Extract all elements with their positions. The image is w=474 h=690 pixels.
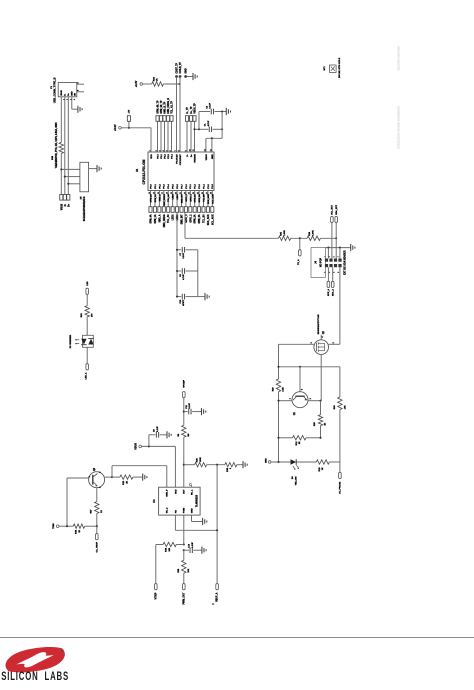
svg-text:4: 4: [321, 337, 324, 338]
svg-text:SPM_2A: SPM_2A: [194, 194, 197, 203]
svg-text:NO POP: NO POP: [320, 257, 323, 267]
svg-text:SDA_AUX: SDA_AUX: [207, 214, 210, 225]
svg-text:P1.5: P1.5: [208, 184, 210, 189]
svg-text:LED2: LED2: [173, 193, 175, 199]
svg-text:THERMISTOR, PTC, RX, 12V4, 0.5: THERMISTOR, PTC, RX, 12V4, 0.50A, 0805: [55, 122, 58, 169]
svg-text:SPM_4A: SPM_4A: [150, 194, 153, 203]
svg-text:P0.0: P0.0: [150, 184, 152, 189]
svg-text:VDD: VDD: [151, 154, 153, 159]
svg-text:8: 8: [178, 150, 180, 151]
svg-text:1M: 1M: [188, 433, 190, 436]
svg-text:10K: 10K: [344, 405, 346, 409]
svg-text:P2.2: P2.2: [164, 154, 166, 159]
svg-text:GND: GND: [212, 154, 214, 159]
svg-text:D-: D-: [187, 154, 189, 157]
svg-text:5: 5: [166, 150, 168, 151]
svg-text:4: 4: [162, 150, 165, 151]
svg-text:1K: 1K: [157, 78, 159, 81]
svg-text:OC_VBUF: OC_VBUF: [96, 541, 98, 552]
svg-text:0.1UF: 0.1UF: [189, 402, 191, 408]
svg-text:7: 7: [175, 150, 177, 151]
svg-text:SPM_2A: SPM_2A: [194, 214, 197, 223]
svg-text:GND: GND: [186, 68, 188, 73]
svg-text:SPM_4A: SPM_4A: [150, 214, 153, 223]
svg-text:TRIM: TRIM: [53, 523, 55, 529]
svg-text:P0.5: P0.5: [173, 184, 175, 189]
svg-text:SPM_1B_TP: SPM_1B_TP: [161, 100, 163, 114]
svg-text:LED2: LED2: [173, 214, 175, 221]
svg-text:9: 9: [185, 150, 187, 151]
svg-text:250 MIL MTG HOLE: 250 MIL MTG HOLE: [339, 57, 341, 78]
svg-text:5: 5: [78, 82, 80, 83]
svg-text:SDA_A: SDA_A: [332, 289, 335, 297]
svg-text:VREGIN: VREGIN: [194, 154, 196, 163]
svg-text:3: 3: [99, 472, 101, 473]
svg-text:C2CK/RST: C2CK/RST: [180, 154, 182, 166]
svg-text:+5V: +5V: [129, 109, 131, 113]
svg-text:0.1UF: 0.1UF: [157, 426, 159, 432]
svg-text:TL4050B25: TL4050B25: [196, 494, 199, 507]
svg-text:P0.1: P0.1: [155, 184, 157, 189]
svg-text:3: 3: [302, 389, 304, 390]
svg-text:1: 1: [64, 99, 66, 100]
svg-text:D-_TP: D-_TP: [187, 107, 189, 114]
svg-text:11: 11: [193, 149, 195, 151]
svg-text:P0.4: P0.4: [167, 184, 170, 189]
svg-text:D-: D-: [65, 204, 67, 207]
svg-text:P1.4: P1.4: [202, 184, 205, 189]
svg-text:SPM_4B_TP: SPM_4B_TP: [156, 100, 159, 114]
svg-text:SPM_1A: SPM_1A: [154, 194, 157, 203]
svg-text:YELLOW: YELLOW: [295, 476, 297, 485]
svg-text:SPM_3A: SPM_3A: [198, 194, 201, 203]
svg-text:P2.0: P2.0: [157, 154, 159, 159]
svg-text:3: 3: [329, 256, 331, 257]
svg-text:GPIO_0: GPIO_0: [186, 214, 188, 223]
svg-text:GND: GND: [191, 508, 193, 513]
svg-text:HND_DRDG: HND_DRDG: [164, 194, 166, 206]
svg-text:VBUS_TP: VBUS_TP: [194, 103, 196, 114]
svg-text:3: 3: [311, 342, 313, 343]
svg-text:PWM_OUT: PWM_OUT: [183, 592, 185, 604]
svg-text:2: 2: [333, 342, 335, 343]
svg-text:LED: LED: [87, 281, 89, 286]
svg-text:PWM: PWM: [184, 508, 186, 513]
svg-text:EXT I2C SDA HEADER: EXT I2C SDA HEADER: [343, 250, 346, 275]
svg-text:SCL_EXT: SCL_EXT: [332, 204, 334, 214]
svg-text:VTRIP: VTRIP: [155, 592, 157, 599]
svg-text:0.1UF: 0.1UF: [183, 252, 185, 258]
svg-text:TS_A: TS_A: [297, 259, 300, 265]
svg-text:2.2K: 2.2K: [283, 387, 285, 392]
svg-text:7: 7: [338, 256, 340, 257]
svg-text:SMB_INT: SMB_INT: [182, 214, 184, 225]
svg-text:SURGE/GP0030RAFG: SURGE/GP0030RAFG: [83, 196, 86, 221]
svg-text:USB_CONN_TYPE_B: USB_CONN_TYPE_B: [52, 77, 56, 103]
svg-text:VBUF_A: VBUF_A: [216, 592, 219, 602]
svg-text:HND_DRDG_B: HND_DRDG_B: [168, 98, 170, 114]
svg-text:TCL_A1_TP: TCL_A1_TP: [170, 100, 173, 113]
svg-text:SILICON LABS: SILICON LABS: [1, 670, 69, 683]
svg-text:HND_B_TP: HND_B_TP: [164, 101, 166, 113]
svg-text:VBUS: VBUS: [61, 90, 63, 96]
svg-text:5: 5: [333, 256, 335, 257]
svg-text:FB: FB: [175, 510, 177, 513]
svg-text:GPIO_0: GPIO_0: [186, 193, 188, 201]
svg-text:D+_TP: D+_TP: [191, 106, 193, 114]
svg-text:100K: 100K: [200, 457, 202, 462]
svg-text:P1.6: P1.6: [212, 184, 214, 189]
svg-text:D2 GRN/RED: D2 GRN/RED: [70, 334, 72, 348]
svg-text:6: 6: [333, 272, 335, 273]
svg-text:HND_A: HND_A: [158, 194, 161, 202]
svg-text:SMB_INT: SMB_INT: [182, 193, 184, 203]
svg-text:SCL_AUX: SCL_AUX: [211, 194, 214, 204]
svg-text:10: 10: [189, 149, 191, 151]
svg-text:LED_A: LED_A: [85, 372, 88, 379]
svg-text:SCK_A: SCK_A: [327, 289, 330, 297]
svg-text:GND: GND: [265, 458, 267, 463]
svg-text:P1.1: P1.1: [190, 184, 192, 189]
svg-text:P2.4: P2.4: [170, 154, 173, 159]
svg-text:HND_DRDG: HND_DRDG: [164, 214, 166, 227]
svg-text:10K: 10K: [188, 568, 190, 572]
svg-text:P2.3: P2.3: [168, 154, 170, 159]
svg-text:VBUS: VBUS: [206, 154, 208, 161]
svg-text:P0.3: P0.3: [164, 184, 166, 189]
svg-text:6: 6: [78, 90, 80, 91]
svg-text:SDA_EXT: SDA_EXT: [335, 204, 338, 215]
svg-text:NC_2: NC_2: [167, 507, 169, 513]
svg-text:2: 2: [67, 99, 69, 100]
svg-text:P2.1: P2.1: [161, 154, 163, 159]
svg-text:HND_A: HND_A: [158, 214, 161, 222]
svg-text:2: 2: [99, 487, 101, 488]
svg-text:GPIO_1: GPIO_1: [190, 214, 192, 223]
svg-text:P0.2: P0.2: [159, 184, 161, 189]
svg-text:GND_F: GND_F: [167, 489, 169, 497]
svg-text:1: 1: [289, 398, 291, 399]
svg-text:SDA_AUX: SDA_AUX: [207, 194, 210, 204]
svg-text:OUT: OUT: [184, 489, 186, 494]
svg-text:3: 3: [159, 150, 161, 151]
svg-text:CP2112-F01-GM: CP2112-F01-GM: [142, 159, 146, 184]
svg-text:1.00K: 1.00K: [284, 230, 286, 236]
svg-text:CDBT_TP: CDBT_TP: [176, 62, 178, 73]
svg-text:SPM_3A: SPM_3A: [198, 214, 201, 223]
svg-text:+3.3V: +3.3V: [135, 80, 138, 87]
svg-text:U1: U1: [135, 168, 139, 172]
svg-text:LED1: LED1: [177, 193, 179, 199]
svg-text:1: 1: [324, 256, 326, 257]
svg-text:2: 2: [310, 398, 312, 399]
svg-text:SILICON LABS REV: SILICON LABS REV: [397, 46, 401, 71]
svg-text:OC_PROG2: OC_PROG2: [339, 481, 341, 494]
svg-text:D-: D-: [65, 93, 67, 95]
svg-text:GPIO_1: GPIO_1: [190, 193, 192, 201]
svg-text:6: 6: [170, 150, 172, 151]
svg-text:TCL_A0: TCL_A0: [167, 193, 170, 202]
svg-text:P3.0/C2D: P3.0/C2D: [176, 154, 178, 164]
svg-text:TCL_B0: TCL_B0: [204, 214, 206, 223]
svg-text:2: 2: [324, 272, 326, 273]
svg-text:4.7UF: 4.7UF: [182, 273, 185, 279]
svg-text:2: 2: [156, 150, 158, 151]
svg-text:+5.0V: +5.0V: [114, 124, 117, 131]
svg-text:P1.0: P1.0: [186, 184, 188, 189]
svg-text:P0.7: P0.7: [181, 184, 183, 189]
svg-text:COILB_TP: COILB_TP: [180, 62, 182, 74]
svg-text:NDS352AP/FCT-ND: NDS352AP/FCT-ND: [317, 314, 320, 334]
svg-text:P1.2: P1.2: [195, 184, 197, 189]
svg-text:0.1UF: 0.1UF: [210, 102, 212, 108]
svg-text:13: 13: [210, 149, 212, 151]
svg-text:NC_1: NC_1: [191, 489, 193, 495]
svg-text:VDD: VDD: [175, 489, 177, 494]
svg-text:1: 1: [149, 150, 151, 151]
svg-text:GND: GND: [72, 91, 74, 96]
svg-text:1.0UF: 1.0UF: [192, 541, 194, 547]
svg-text:SCL_AUX: SCL_AUX: [211, 214, 214, 225]
svg-text:VBUS: VBUS: [134, 443, 137, 450]
svg-text:1: 1: [89, 476, 91, 477]
svg-text:TCL_B0: TCL_B0: [204, 193, 206, 202]
svg-text:VPUMP: VPUMP: [184, 379, 186, 387]
svg-text:VBUS: VBUS: [61, 203, 63, 210]
svg-text:SPM_1A: SPM_1A: [154, 214, 157, 223]
svg-text:12: 12: [204, 149, 206, 151]
svg-text:470PF: 470PF: [182, 299, 185, 306]
svg-text:P0.6: P0.6: [177, 184, 179, 189]
svg-text:4: 4: [73, 99, 76, 100]
svg-text:1.00K: 1.00K: [312, 230, 314, 236]
svg-text:4.7UF: 4.7UF: [207, 120, 210, 126]
svg-text:3: 3: [71, 99, 73, 100]
svg-text:P1.3: P1.3: [199, 184, 201, 189]
svg-text:CP2112 EVAL BOARD SCHEMATIC: CP2112 EVAL BOARD SCHEMATIC: [397, 106, 401, 149]
svg-text:TCL_A0: TCL_A0: [167, 214, 170, 223]
